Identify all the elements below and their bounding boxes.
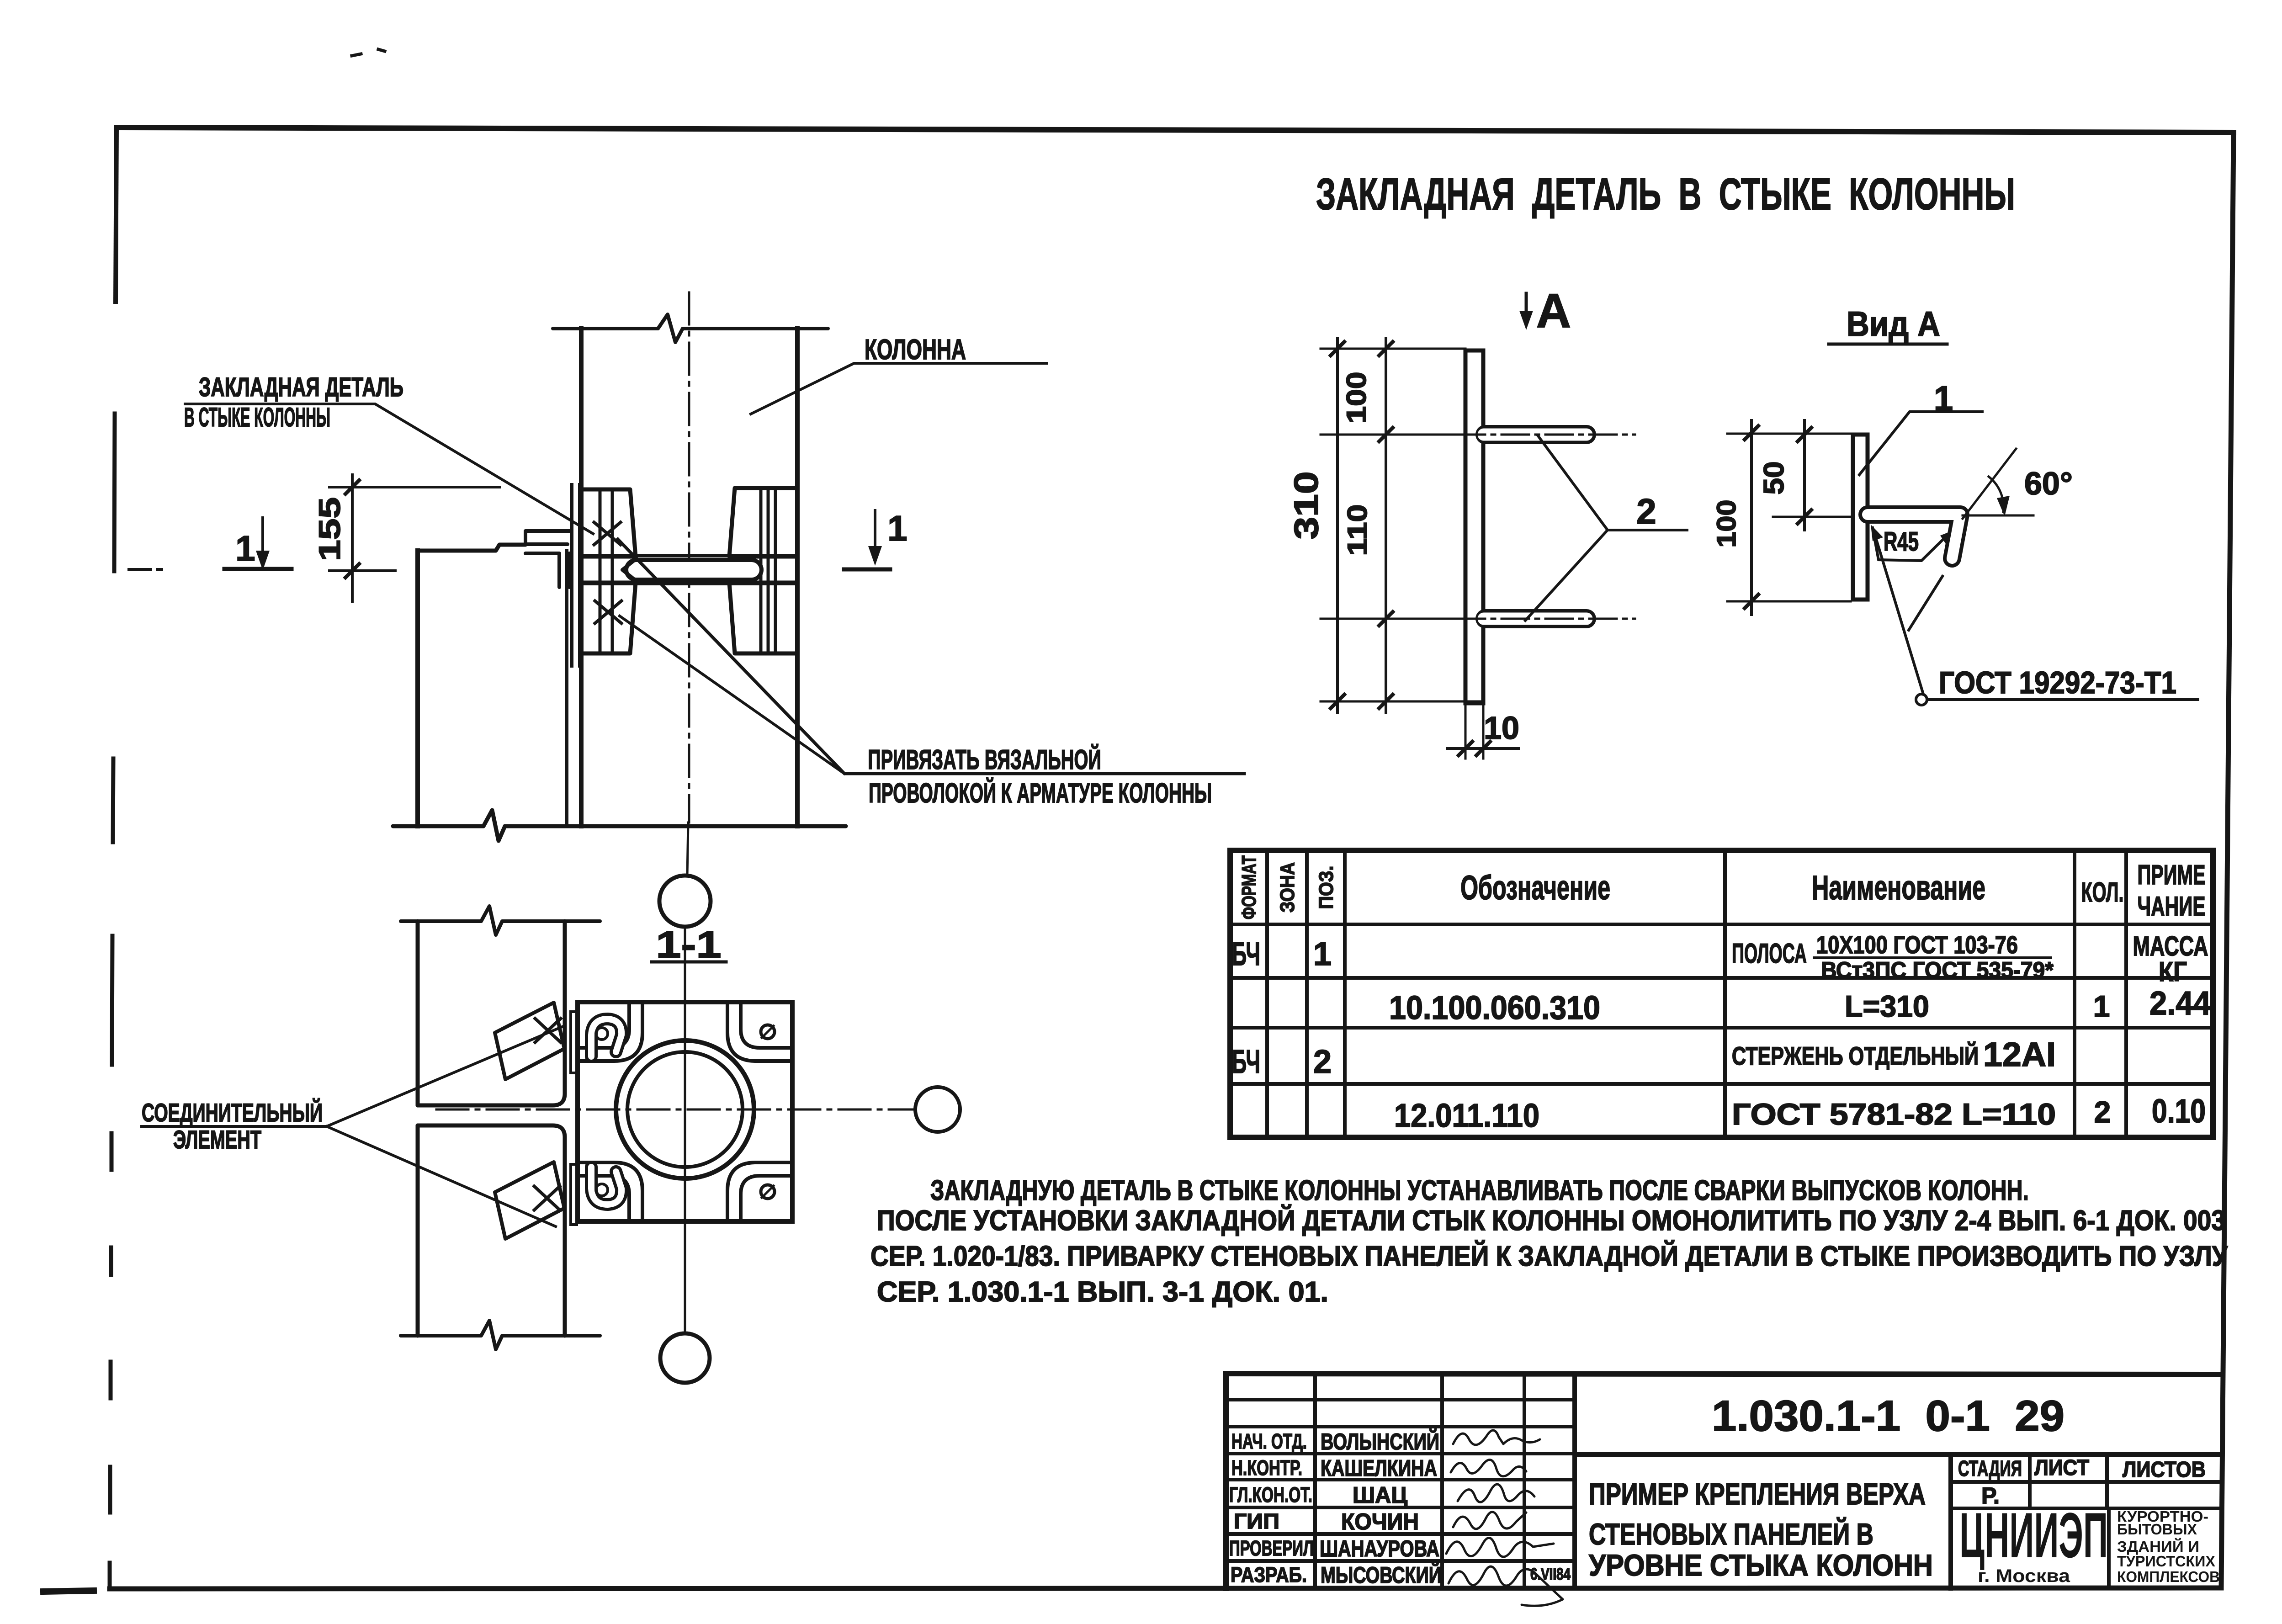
svg-text:155: 155 (313, 497, 346, 561)
svg-text:Н.КОНТР.: Н.КОНТР. (1231, 1456, 1302, 1480)
svg-text:R45: R45 (1884, 527, 1919, 557)
svg-text:1: 1 (887, 508, 907, 548)
svg-text:КГ: КГ (2159, 956, 2187, 987)
svg-text:КОЛ.: КОЛ. (2081, 877, 2124, 908)
svg-text:ВСт3ПС ГОСТ 535-79*: ВСт3ПС ГОСТ 535-79* (1821, 957, 2054, 983)
svg-text:12.011.110: 12.011.110 (1394, 1098, 1539, 1134)
svg-text:ЦНИИЭП: ЦНИИЭП (1959, 1499, 2108, 1571)
svg-text:ЗОНА: ЗОНА (1276, 862, 1299, 913)
svg-text:1-1: 1-1 (656, 924, 722, 966)
svg-text:110: 110 (1342, 504, 1373, 556)
svg-text:10X100 ГОСТ 103-76: 10X100 ГОСТ 103-76 (1816, 931, 2018, 959)
svg-text:1: 1 (1313, 936, 1332, 972)
svg-text:УРОВНЕ СТЫКА КОЛОНН: УРОВНЕ СТЫКА КОЛОНН (1589, 1548, 1933, 1582)
svg-text:ГИП: ГИП (1234, 1509, 1279, 1533)
svg-text:12АI: 12АI (1983, 1035, 2056, 1073)
svg-text:СТЕНОВЫХ ПАНЕЛЕЙ В: СТЕНОВЫХ ПАНЕЛЕЙ В (1589, 1517, 1873, 1551)
svg-text:КОЛОННА: КОЛОННА (865, 334, 966, 366)
svg-text:ПРОВОЛОКОЙ К АРМАТУРЕ КОЛОННЫ: ПРОВОЛОКОЙ К АРМАТУРЕ КОЛОННЫ (869, 778, 1212, 808)
svg-text:2: 2 (1636, 491, 1656, 531)
svg-text:СТАДИЯ: СТАДИЯ (1958, 1457, 2022, 1481)
svg-text:1: 1 (2093, 989, 2110, 1023)
svg-text:ЛИСТ: ЛИСТ (2034, 1456, 2089, 1480)
svg-text:6.VII84: 6.VII84 (1530, 1565, 1571, 1583)
svg-text:Наименование: Наименование (1812, 869, 1985, 907)
svg-text:2: 2 (1313, 1044, 1332, 1080)
svg-text:РАЗРАБ.: РАЗРАБ. (1231, 1563, 1307, 1587)
svg-text:1: 1 (235, 528, 255, 568)
svg-text:ГОСТ 5781-82 L=110: ГОСТ 5781-82 L=110 (1732, 1097, 2056, 1131)
svg-text:ЛИСТОВ: ЛИСТОВ (2123, 1458, 2206, 1482)
svg-text:СЕР. 1.020-1/83. ПРИВАРКУ СТЕ: СЕР. 1.020-1/83. ПРИВАРКУ СТЕНОВЫХ ПАНЕЛ… (870, 1240, 2228, 1272)
svg-text:ВОЛЫНСКИЙ: ВОЛЫНСКИЙ (1321, 1428, 1439, 1454)
svg-text:ГЛ.КОН.ОТ.: ГЛ.КОН.ОТ. (1229, 1483, 1312, 1507)
svg-text:СОЕДИНИТЕЛЬНЫЙ: СОЕДИНИТЕЛЬНЫЙ (142, 1098, 323, 1127)
svg-text:ПОЗ.: ПОЗ. (1315, 866, 1337, 909)
svg-text:КОМПЛЕКСОВ: КОМПЛЕКСОВ (2117, 1568, 2220, 1585)
svg-text:СЕР. 1.030.1-1 ВЫП. 3-1 ДОК.: СЕР. 1.030.1-1 ВЫП. 3-1 ДОК. 01. (877, 1276, 1328, 1308)
svg-text:ГОСТ 19292-73-Т1: ГОСТ 19292-73-Т1 (1939, 665, 2176, 700)
svg-text:50: 50 (1758, 462, 1790, 495)
svg-text:СТЕРЖЕНЬ ОТДЕЛЬНЫЙ: СТЕРЖЕНЬ ОТДЕЛЬНЫЙ (1732, 1041, 1979, 1070)
svg-text:310: 310 (1287, 472, 1325, 540)
svg-text:Обозначение: Обозначение (1460, 869, 1610, 907)
svg-text:10: 10 (1484, 710, 1519, 746)
svg-text:ЗАКЛАДНАЯ ДЕТАЛЬ В СТЫКЕ К: ЗАКЛАДНАЯ ДЕТАЛЬ В СТЫКЕ КОЛОННЫ (1316, 169, 2015, 219)
svg-text:A: A (1536, 284, 1571, 338)
svg-text:1.030.1-1 0-1 29: 1.030.1-1 0-1 29 (1712, 1392, 2064, 1440)
svg-text:КАШЕЛКИНА: КАШЕЛКИНА (1321, 1455, 1437, 1481)
svg-text:ПРИМЕР КРЕПЛЕНИЯ ВЕРХА: ПРИМЕР КРЕПЛЕНИЯ ВЕРХА (1589, 1477, 1926, 1511)
svg-text:МЫСОВСКИЙ: МЫСОВСКИЙ (1321, 1562, 1442, 1588)
svg-text:ПРИМЕ: ПРИМЕ (2138, 860, 2206, 890)
svg-text:БЫТОВЫХ: БЫТОВЫХ (2117, 1521, 2197, 1538)
svg-text:60°: 60° (2024, 466, 2073, 501)
svg-text:10.100.060.310: 10.100.060.310 (1389, 990, 1600, 1026)
svg-text:0.10: 0.10 (2152, 1093, 2206, 1130)
svg-text:БЧ: БЧ (1232, 1044, 1260, 1080)
svg-text:Вид А: Вид А (1847, 305, 1940, 344)
svg-text:БЧ: БЧ (1232, 936, 1260, 972)
svg-text:100: 100 (1341, 372, 1372, 424)
svg-text:ШАЦ: ШАЦ (1353, 1482, 1407, 1508)
svg-text:ПОЛОСА: ПОЛОСА (1732, 938, 1807, 969)
svg-text:ЧАНИЕ: ЧАНИЕ (2138, 891, 2206, 922)
svg-text:КОЧИН: КОЧИН (1341, 1509, 1419, 1534)
svg-text:В СТЫКЕ КОЛОННЫ: В СТЫКЕ КОЛОННЫ (184, 403, 330, 432)
svg-text:ЭЛЕМЕНТ: ЭЛЕМЕНТ (173, 1125, 261, 1154)
svg-text:ЗАКЛАДНАЯ ДЕТАЛЬ: ЗАКЛАДНАЯ ДЕТАЛЬ (199, 372, 403, 402)
svg-text:ШАНАУРОВА: ШАНАУРОВА (1320, 1536, 1439, 1561)
svg-text:2: 2 (2094, 1095, 2111, 1129)
svg-text:100: 100 (1712, 500, 1741, 548)
svg-text:2.44: 2.44 (2149, 985, 2211, 1022)
svg-text:L=310: L=310 (1845, 989, 1929, 1023)
svg-text:г. Москва: г. Москва (1978, 1566, 2070, 1586)
svg-text:ФОРМАТ: ФОРМАТ (1238, 855, 1260, 919)
svg-text:НАЧ. ОТД.: НАЧ. ОТД. (1231, 1429, 1307, 1453)
svg-text:ПРОВЕРИЛ: ПРОВЕРИЛ (1229, 1536, 1314, 1560)
svg-text:ПРИВЯЗАТЬ ВЯЗАЛЬНОЙ: ПРИВЯЗАТЬ ВЯЗАЛЬНОЙ (868, 744, 1101, 775)
svg-text:ЗАКЛАДНУЮ ДЕТАЛЬ В СТЫКЕ КОЛОН: ЗАКЛАДНУЮ ДЕТАЛЬ В СТЫКЕ КОЛОННЫ УСТАНАВ… (930, 1175, 2029, 1206)
svg-text:ТУРИСТСКИХ: ТУРИСТСКИХ (2117, 1553, 2215, 1570)
svg-text:ПОСЛЕ УСТАНОВКИ ЗАКЛАДНОЙ ДЕТА: ПОСЛЕ УСТАНОВКИ ЗАКЛАДНОЙ ДЕТАЛИ СТЫК КО… (877, 1205, 2225, 1237)
